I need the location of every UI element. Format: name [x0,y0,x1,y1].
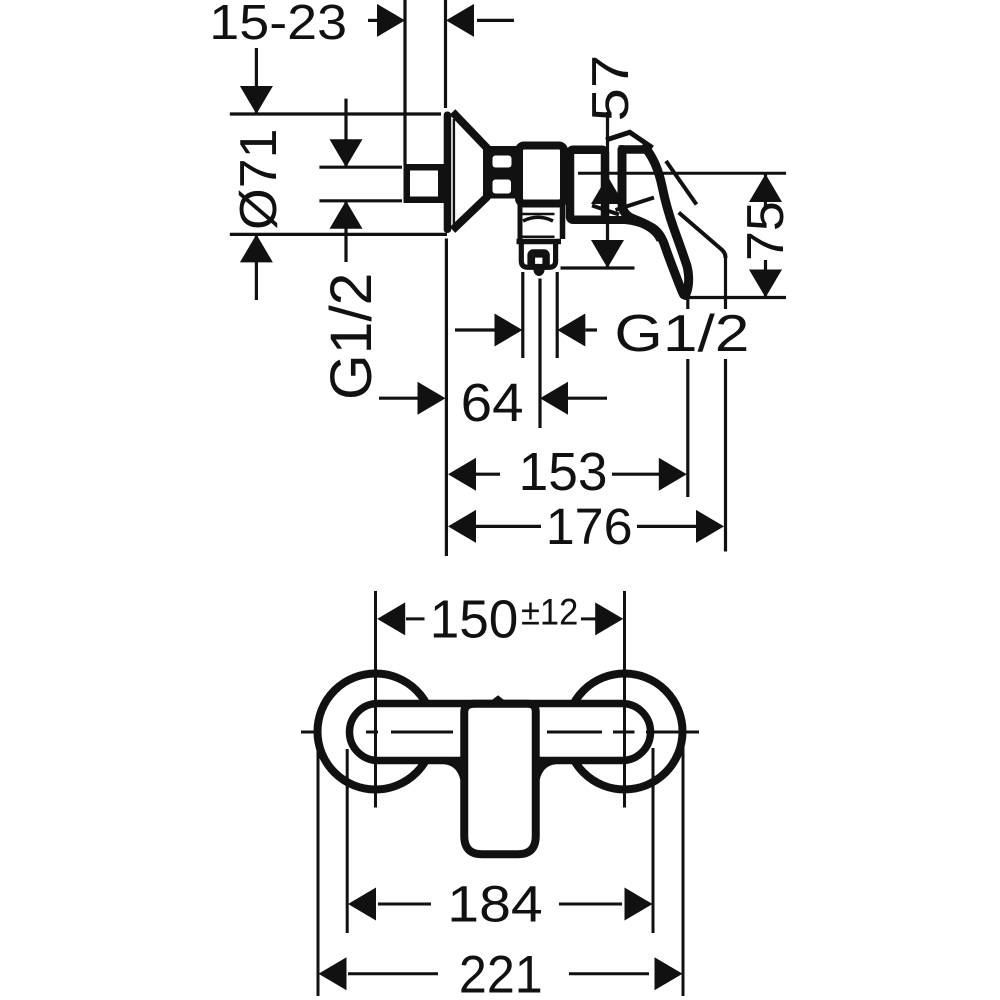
svg-text:15-23: 15-23 [209,0,347,50]
svg-text:75: 75 [737,201,795,261]
svg-text:G1/2: G1/2 [319,273,384,400]
svg-text:Ø71: Ø71 [230,129,288,230]
svg-text:64: 64 [461,372,524,432]
svg-text:150: 150 [430,590,519,649]
svg-text:221: 221 [459,944,543,1000]
svg-text:G1/2: G1/2 [614,305,749,363]
svg-text:±12: ±12 [521,590,578,633]
svg-text:57: 57 [581,55,640,122]
svg-text:184: 184 [447,875,542,933]
svg-text:176: 176 [546,497,633,555]
svg-text:153: 153 [519,442,608,502]
